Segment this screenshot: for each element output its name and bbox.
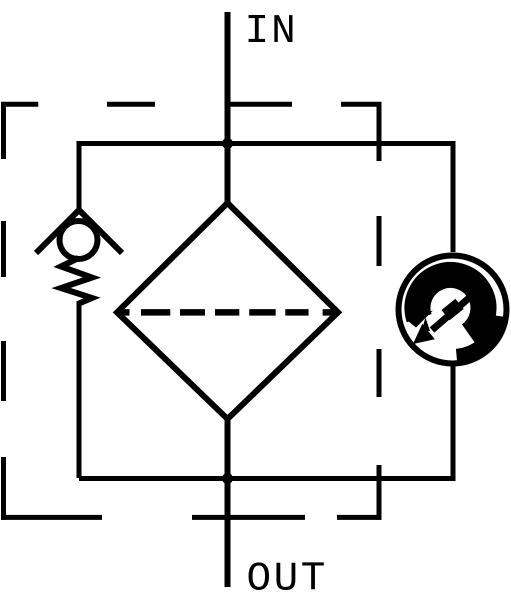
filter element diamond (117, 203, 338, 419)
bottom wire (79, 366, 453, 479)
gauge needle arrowhead (413, 324, 435, 344)
dashed enclosure (1, 102, 382, 520)
check valve seat (36, 210, 122, 253)
gauge needle (432, 298, 469, 330)
svg-text:IN: IN (245, 9, 298, 55)
gauge arc rim merge (457, 316, 500, 357)
wire IN line (225, 12, 231, 203)
gauge arc taper tip (406, 311, 433, 328)
svg-text:OUT: OUT (247, 557, 328, 600)
gauge needle pivot (442, 299, 464, 320)
filter mesh dashed line (119, 309, 339, 316)
junction dot bottom (222, 473, 233, 484)
gauge arrow back spur (422, 318, 431, 332)
wire left branch lower (77, 301, 82, 478)
wire OUT line (225, 419, 231, 587)
gauge thick curved arrow (417, 275, 483, 335)
check valve spring (61, 258, 92, 304)
clogging indicator gauge body (399, 256, 507, 364)
junction dot top (222, 138, 233, 149)
check valve ball (60, 221, 98, 259)
top wire (79, 144, 453, 253)
